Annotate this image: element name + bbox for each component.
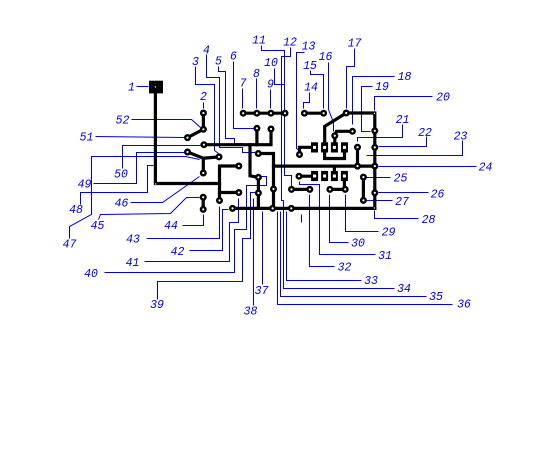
svg-text:51: 51 — [80, 132, 94, 145]
svg-text:10: 10 — [264, 57, 278, 70]
svg-text:4: 4 — [203, 45, 210, 58]
svg-text:15: 15 — [303, 60, 317, 73]
svg-text:8: 8 — [253, 68, 260, 81]
svg-text:47: 47 — [63, 239, 77, 252]
svg-text:37: 37 — [255, 285, 269, 298]
svg-text:31: 31 — [378, 250, 392, 263]
svg-text:48: 48 — [69, 204, 83, 217]
svg-text:27: 27 — [395, 196, 409, 209]
svg-text:5: 5 — [215, 56, 222, 69]
svg-text:46: 46 — [115, 198, 129, 211]
svg-text:14: 14 — [304, 82, 318, 95]
svg-text:2: 2 — [200, 91, 207, 104]
svg-text:23: 23 — [454, 131, 468, 144]
svg-text:13: 13 — [302, 41, 316, 54]
svg-text:42: 42 — [171, 246, 185, 259]
svg-text:19: 19 — [375, 81, 389, 94]
svg-text:39: 39 — [150, 299, 164, 312]
svg-text:29: 29 — [382, 227, 396, 240]
svg-text:34: 34 — [397, 283, 411, 296]
svg-text:41: 41 — [126, 257, 140, 270]
svg-text:33: 33 — [364, 275, 378, 288]
svg-text:44: 44 — [164, 220, 178, 233]
svg-text:49: 49 — [78, 179, 92, 192]
svg-text:28: 28 — [422, 214, 436, 227]
svg-text:26: 26 — [431, 189, 445, 202]
svg-text:25: 25 — [394, 173, 408, 186]
svg-text:12: 12 — [283, 37, 297, 50]
svg-text:17: 17 — [348, 38, 362, 51]
svg-text:21: 21 — [396, 114, 410, 127]
svg-text:45: 45 — [91, 220, 105, 233]
svg-text:32: 32 — [338, 262, 352, 275]
svg-text:22: 22 — [418, 127, 432, 140]
svg-text:36: 36 — [457, 299, 471, 312]
svg-text:50: 50 — [114, 169, 128, 182]
svg-text:20: 20 — [436, 92, 450, 105]
svg-text:52: 52 — [116, 115, 130, 128]
svg-text:11: 11 — [252, 35, 266, 48]
svg-text:38: 38 — [244, 306, 258, 319]
svg-text:43: 43 — [126, 234, 140, 247]
svg-text:24: 24 — [479, 162, 493, 175]
svg-text:3: 3 — [192, 56, 199, 69]
svg-text:18: 18 — [398, 71, 412, 84]
svg-text:1: 1 — [128, 82, 135, 95]
svg-text:6: 6 — [230, 51, 237, 64]
svg-text:30: 30 — [351, 238, 365, 251]
svg-text:35: 35 — [429, 291, 443, 304]
svg-text:40: 40 — [84, 268, 98, 281]
svg-text:9: 9 — [267, 79, 274, 92]
svg-text:16: 16 — [319, 51, 333, 64]
svg-text:7: 7 — [240, 78, 247, 91]
